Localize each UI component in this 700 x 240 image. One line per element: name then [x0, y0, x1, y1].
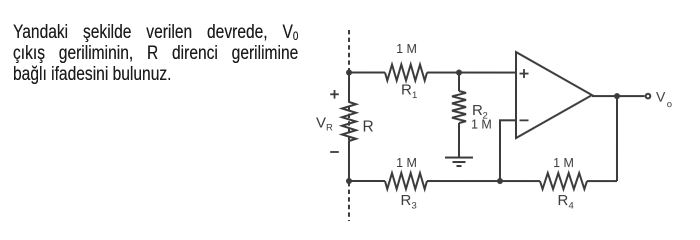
svg-text:V: V — [316, 115, 326, 132]
svg-text:1 M: 1 M — [396, 156, 417, 170]
svg-text:V: V — [656, 89, 666, 105]
svg-text:1 M: 1 M — [471, 118, 492, 132]
svg-text:1 M: 1 M — [396, 42, 417, 56]
svg-text:R: R — [472, 102, 483, 119]
svg-text:R: R — [557, 192, 568, 209]
svg-text:3: 3 — [411, 201, 416, 212]
svg-text:o: o — [667, 99, 672, 110]
svg-text:1 M: 1 M — [553, 156, 574, 170]
svg-text:4: 4 — [568, 201, 573, 212]
svg-text:R: R — [400, 192, 411, 209]
svg-text:R: R — [362, 118, 373, 135]
svg-text:1: 1 — [412, 90, 417, 101]
svg-text:R: R — [401, 82, 412, 99]
svg-text:R: R — [326, 123, 333, 134]
